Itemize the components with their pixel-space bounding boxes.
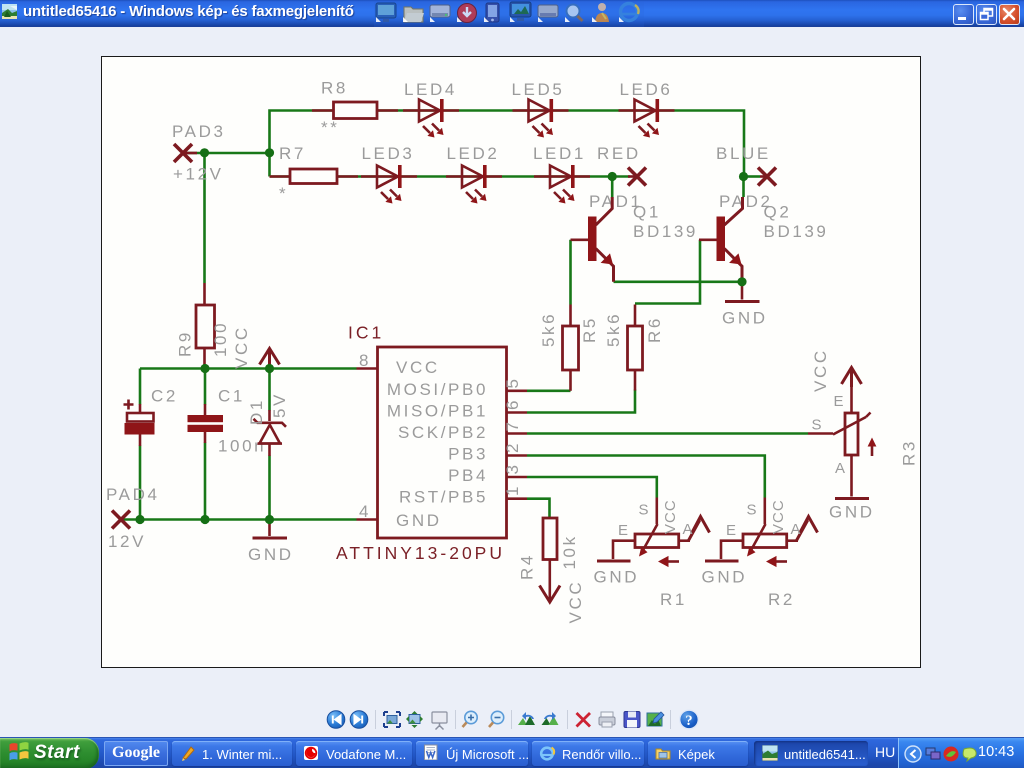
- transistor Q1: [571, 197, 614, 282]
- pad RED: [628, 168, 646, 186]
- svg-text:12V: 12V: [108, 532, 146, 551]
- svg-text:PAD3: PAD3: [172, 122, 226, 141]
- LED LED6: [619, 99, 675, 138]
- svg-text:1: 1: [503, 484, 522, 496]
- LED LED1: [534, 165, 590, 204]
- svg-text:R3: R3: [900, 439, 919, 466]
- svg-text:PB4: PB4: [448, 466, 488, 485]
- svg-text:GND: GND: [248, 545, 294, 564]
- svg-text:GND: GND: [702, 568, 748, 587]
- svg-text:**: **: [321, 118, 339, 137]
- vcc arrow above D1: [260, 349, 280, 369]
- svg-text:R7: R7: [279, 144, 306, 163]
- svg-text:VCC: VCC: [811, 348, 830, 392]
- svg-text:R6: R6: [645, 316, 664, 343]
- transistor Q2: [699, 197, 743, 282]
- LED LED3: [361, 165, 417, 204]
- svg-text:LED2: LED2: [447, 144, 500, 163]
- wire C2 bottom: [139, 446, 142, 520]
- google deskbar: [104, 741, 168, 766]
- wire Q2 base to R6: [635, 240, 700, 304]
- zener diode D1: [254, 410, 287, 456]
- task button 5 Kepek: [648, 741, 748, 766]
- svg-text:5k6: 5k6: [604, 312, 623, 347]
- svg-text:?: ?: [685, 713, 692, 729]
- wire VCC rail drop to C2: [139, 369, 142, 405]
- pad BLUE: [758, 168, 776, 186]
- viewer toolbar: [0, 0, 1024, 1]
- svg-text:3: 3: [503, 462, 522, 474]
- wire C1 top: [204, 369, 207, 405]
- svg-text:LED5: LED5: [512, 80, 565, 99]
- svg-text:E: E: [834, 393, 845, 410]
- wire emitters to GND junction: [614, 280, 743, 283]
- svg-text:100: 100: [211, 321, 230, 357]
- svg-text:R5: R5: [580, 316, 599, 343]
- svg-text:GND: GND: [829, 503, 875, 522]
- ground below D1: [253, 520, 288, 539]
- svg-text:VCC: VCC: [396, 358, 440, 377]
- wire pin3 to R1 wiper: [527, 477, 657, 498]
- svg-text:BD139: BD139: [764, 222, 829, 241]
- system tray: [898, 738, 1024, 768]
- svg-text:E: E: [618, 522, 629, 539]
- IC pin 4 stub: [357, 518, 378, 521]
- svg-text:D1: D1: [247, 398, 266, 425]
- svg-text:R8: R8: [321, 79, 348, 98]
- svg-text:VCC: VCC: [770, 499, 787, 534]
- resistor R7: [270, 169, 359, 184]
- wire Q2 collector net: [742, 177, 745, 198]
- svg-text:LED3: LED3: [362, 144, 415, 163]
- svg-text:VCC: VCC: [232, 325, 251, 369]
- svg-text:S: S: [747, 502, 758, 519]
- wire Q1 base to R5: [569, 240, 572, 305]
- svg-text:E: E: [726, 522, 737, 539]
- IC1 ATTINY13 box: [378, 347, 507, 538]
- svg-text:A: A: [683, 521, 694, 538]
- svg-text:A: A: [791, 521, 802, 538]
- start button: [0, 738, 99, 768]
- svg-text:R2: R2: [768, 590, 795, 609]
- svg-text:4: 4: [359, 502, 371, 521]
- svg-text:R4: R4: [518, 553, 537, 580]
- window title bar: [0, 0, 1024, 27]
- svg-text:10k: 10k: [560, 534, 579, 569]
- wire R6 to pin6: [527, 390, 635, 413]
- svg-text:S: S: [639, 502, 650, 519]
- svg-text:S: S: [812, 417, 823, 434]
- svg-text:+12V: +12V: [173, 165, 224, 184]
- svg-text:PAD4: PAD4: [106, 485, 160, 504]
- wire D1 top: [268, 369, 271, 411]
- wire pin7 to R3 wiper: [527, 432, 808, 435]
- resistor R4: [543, 518, 557, 599]
- HU language: [875, 744, 895, 760]
- svg-text:2: 2: [503, 441, 522, 453]
- svg-text:BD139: BD139: [633, 222, 698, 241]
- wire C1 bottom: [204, 443, 207, 520]
- IC pin stubs right: [507, 391, 528, 499]
- svg-text:R1: R1: [660, 590, 687, 609]
- resistor R9: [196, 283, 215, 369]
- svg-text:MISO/PB1: MISO/PB1: [387, 402, 488, 421]
- svg-text:BLUE: BLUE: [716, 144, 771, 163]
- svg-text:MOSI/PB0: MOSI/PB0: [387, 380, 488, 399]
- svg-text:100n: 100n: [218, 437, 266, 456]
- taskbar: [0, 737, 1024, 768]
- pad PAD4: [112, 511, 130, 529]
- svg-text:IC1: IC1: [348, 323, 384, 343]
- wire Q1 collector net: [611, 177, 614, 198]
- svg-text:R9: R9: [176, 330, 195, 357]
- white image canvas with schematic: [101, 56, 921, 668]
- ground below Q2 emitter: [725, 282, 760, 302]
- svg-text:5V: 5V: [270, 392, 289, 418]
- svg-text:7: 7: [503, 419, 522, 431]
- wire +12V vertical to R9: [203, 153, 206, 283]
- LED LED5: [513, 99, 569, 138]
- resistor R5: [563, 305, 579, 391]
- task button 2 Vodafone: [296, 741, 412, 766]
- wire second LED row: [270, 175, 631, 178]
- svg-text:6: 6: [503, 398, 522, 410]
- wire top LED row: [270, 111, 745, 177]
- svg-text:RED: RED: [597, 144, 641, 163]
- wire pin1 to R4: [527, 499, 550, 518]
- svg-text:A: A: [835, 460, 846, 477]
- trimmer R3: [808, 368, 876, 499]
- svg-text:VCC: VCC: [662, 499, 679, 534]
- svg-text:VCC: VCC: [566, 580, 585, 624]
- svg-text:SCK/PB2: SCK/PB2: [398, 423, 488, 442]
- svg-text:Q2: Q2: [764, 203, 792, 222]
- resistor R8: [312, 102, 398, 119]
- svg-text:*: *: [279, 184, 288, 203]
- wire GND rail: [121, 518, 357, 521]
- wire VCC rail: [140, 367, 357, 370]
- svg-text:C2: C2: [151, 387, 178, 406]
- svg-text:GND: GND: [722, 309, 768, 328]
- IC pin 8 stub: [357, 367, 378, 370]
- svg-text:LED4: LED4: [404, 80, 457, 99]
- pad PAD3: [174, 144, 197, 162]
- LED LED4: [403, 99, 459, 138]
- trimmer R2: [705, 498, 818, 568]
- svg-text:LED6: LED6: [620, 80, 673, 99]
- wire to BLUE pad: [744, 175, 760, 178]
- svg-text:ATTINY13-20PU: ATTINY13-20PU: [336, 543, 505, 563]
- wire PAD3 to junction: [186, 152, 270, 155]
- capacitor C1: [188, 404, 224, 443]
- LED LED2: [446, 165, 502, 204]
- task button 6 untitled (active): [754, 741, 868, 766]
- svg-text:GND: GND: [396, 511, 442, 530]
- svg-text:GND: GND: [594, 568, 640, 587]
- task button 4 Rendor: [532, 741, 644, 766]
- svg-text:5: 5: [503, 376, 522, 388]
- wire D1 bottom: [268, 456, 271, 520]
- task button 1 Winter: [172, 741, 292, 766]
- svg-text:Q1: Q1: [633, 203, 661, 222]
- trimmer R1: [597, 498, 710, 568]
- wire R5 to pin5: [527, 389, 571, 392]
- svg-text:LED1: LED1: [533, 144, 586, 163]
- svg-text:RST/PB5: RST/PB5: [399, 488, 488, 507]
- svg-text:PB3: PB3: [448, 445, 488, 464]
- capacitor C2: [124, 400, 155, 447]
- svg-text:8: 8: [359, 351, 371, 370]
- svg-text:C1: C1: [218, 387, 245, 406]
- resistor R6: [628, 305, 643, 391]
- svg-text:5k6: 5k6: [539, 312, 558, 347]
- task button 3 Uj Microsoft: [416, 741, 528, 766]
- vcc arrow below R4: [540, 586, 561, 603]
- wire pin2 to R2 wiper: [527, 456, 765, 498]
